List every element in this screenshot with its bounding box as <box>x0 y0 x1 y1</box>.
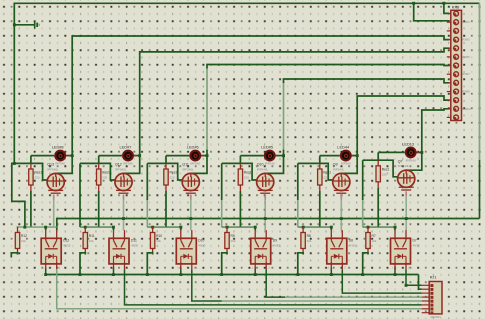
svg-text:RX8/3: RX8/3 <box>463 38 471 42</box>
svg-text:220: 220 <box>34 176 39 180</box>
svg-text:220: 220 <box>323 176 328 180</box>
svg-text:LED#5: LED#5 <box>261 145 273 150</box>
svg-text:D10: D10 <box>198 238 204 242</box>
svg-text:Q10: Q10 <box>257 163 264 167</box>
svg-text:LED#6: LED#6 <box>187 145 199 150</box>
svg-text:IRF540L: IRF540L <box>257 167 269 171</box>
svg-text:IRF540L: IRF540L <box>398 164 410 168</box>
svg-text:Res1: Res1 <box>323 171 331 175</box>
svg-text:RX8: RX8 <box>452 5 459 9</box>
svg-text:IRF540: IRF540 <box>341 162 351 166</box>
svg-text:Q7: Q7 <box>398 160 403 164</box>
svg-text:LED13: LED13 <box>402 141 414 146</box>
svg-text:D9: D9 <box>273 238 277 242</box>
svg-text:4N35: 4N35 <box>349 243 357 247</box>
svg-text:LED#7: LED#7 <box>120 145 132 150</box>
svg-text:IRF540: IRF540 <box>55 162 65 166</box>
svg-text:Res1: Res1 <box>244 171 252 175</box>
svg-text:ADC0834: ADC0834 <box>430 316 441 319</box>
svg-text:R9: R9 <box>231 234 235 238</box>
svg-text:IRF540: IRF540 <box>265 162 275 166</box>
svg-text:R7: R7 <box>372 234 376 238</box>
svg-text:10k: 10k <box>89 239 94 243</box>
svg-text:D11: D11 <box>131 238 137 242</box>
svg-text:RX8/9: RX8/9 <box>463 90 471 94</box>
svg-text:RX8/11: RX8/11 <box>463 107 472 111</box>
svg-text:RJ1: RJ1 <box>430 276 437 280</box>
svg-text:RX8/5: RX8/5 <box>463 55 471 59</box>
svg-text:Res1: Res1 <box>170 171 178 175</box>
svg-text:10k: 10k <box>21 239 26 243</box>
svg-text:D8: D8 <box>349 238 353 242</box>
svg-text:IRF540L: IRF540L <box>182 167 194 171</box>
svg-text:10k: 10k <box>156 239 161 243</box>
svg-text:IRF540L: IRF540L <box>333 167 345 171</box>
svg-text:220: 220 <box>382 172 387 176</box>
svg-text:D12: D12 <box>63 238 69 242</box>
svg-text:IRF540L: IRF540L <box>115 167 127 171</box>
svg-text:Q9: Q9 <box>333 163 338 167</box>
svg-text:R8: R8 <box>307 234 311 238</box>
svg-text:IRF540: IRF540 <box>123 162 133 166</box>
svg-text:Q13: Q13 <box>47 163 54 167</box>
svg-text:220: 220 <box>244 176 249 180</box>
svg-text:D7: D7 <box>413 238 417 242</box>
svg-text:Q12: Q12 <box>115 163 122 167</box>
svg-text:10k: 10k <box>372 239 377 243</box>
svg-text:RX8/7: RX8/7 <box>463 72 471 76</box>
svg-text:4N35: 4N35 <box>131 243 139 247</box>
svg-text:4N35: 4N35 <box>198 243 206 247</box>
svg-text:4N35: 4N35 <box>273 243 281 247</box>
svg-text:IRF540: IRF540 <box>406 159 416 163</box>
svg-text:IRF540L: IRF540L <box>47 167 59 171</box>
svg-text:Res1: Res1 <box>382 167 390 171</box>
svg-text:220: 220 <box>102 176 107 180</box>
svg-text:4N35: 4N35 <box>413 243 421 247</box>
svg-text:10k: 10k <box>307 239 312 243</box>
svg-text:R11: R11 <box>89 234 95 238</box>
svg-text:LED44: LED44 <box>337 145 350 150</box>
svg-text:R10: R10 <box>156 234 162 238</box>
svg-text:Q11: Q11 <box>182 163 189 167</box>
svg-text:Res1: Res1 <box>34 171 42 175</box>
svg-text:RX8/1: RX8/1 <box>463 20 471 24</box>
svg-text:IRF540: IRF540 <box>190 162 200 166</box>
svg-text:220: 220 <box>170 176 175 180</box>
svg-text:10k: 10k <box>231 239 236 243</box>
svg-text:LED#8: LED#8 <box>52 145 64 150</box>
svg-text:R12: R12 <box>21 234 27 238</box>
svg-text:4N35: 4N35 <box>63 243 71 247</box>
svg-text:Res1: Res1 <box>102 171 110 175</box>
